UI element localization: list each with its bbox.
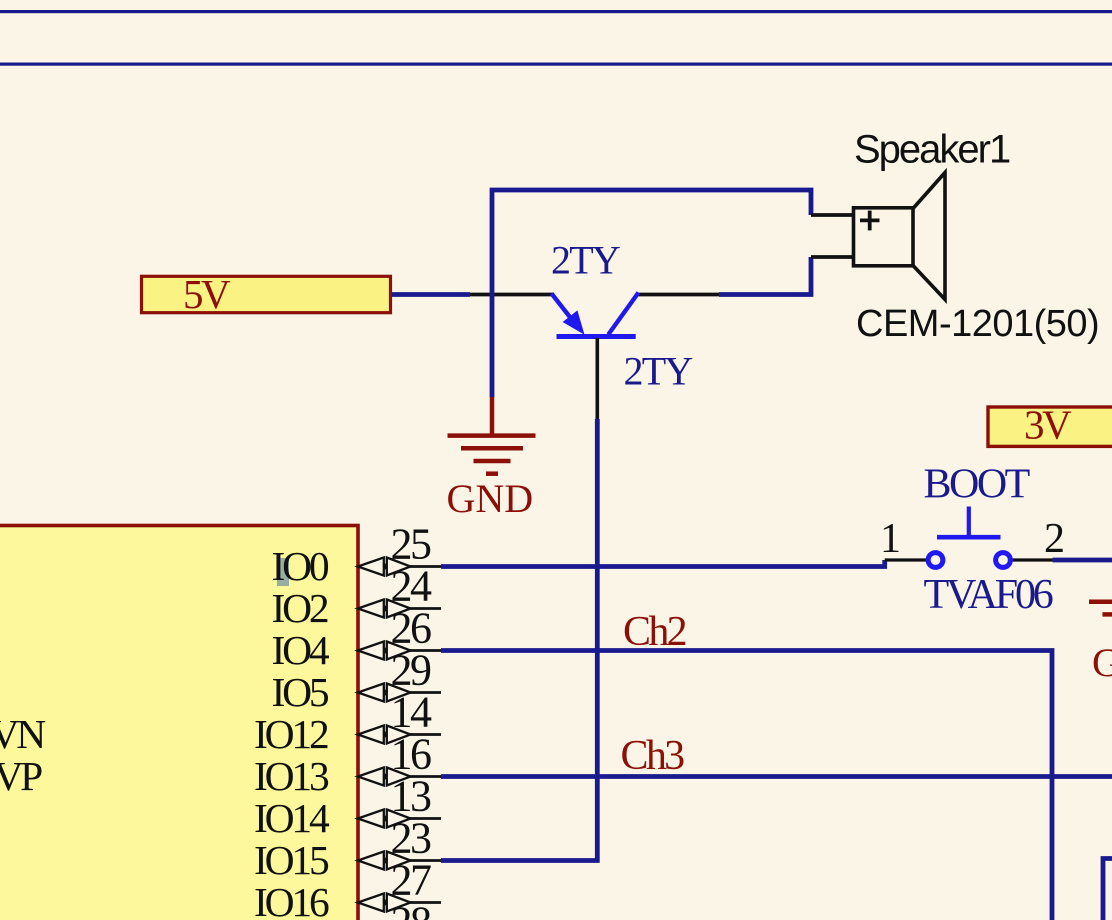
pin IO4 glyph (358, 642, 411, 660)
sheet border line top inner (0, 63, 1112, 66)
svg-text:IO0: IO0 (272, 543, 329, 589)
button S1 pin1 lead (black) (885, 558, 926, 561)
ground symbol GND (left) (448, 397, 536, 474)
wire base to IO15 (navy) (441, 419, 597, 861)
svg-text:BOOT: BOOT (924, 462, 1030, 508)
power flag 5V (142, 271, 391, 317)
pin IO16 lead (410, 901, 441, 904)
svg-text:IO13: IO13 (254, 753, 329, 799)
svg-text:IO14: IO14 (254, 795, 330, 841)
svg-text:Speaker1: Speaker1 (854, 128, 1010, 172)
svg-text:3V: 3V (1024, 402, 1072, 448)
pin IO0 glyph (358, 558, 411, 576)
pin IO15 glyph (358, 852, 411, 870)
wire IO0 to button (navy) (441, 560, 885, 567)
svg-text:IO15: IO15 (254, 837, 329, 883)
svg-text:IO4: IO4 (272, 627, 330, 673)
svg-text:VN: VN (0, 711, 46, 757)
svg-text:1: 1 (880, 516, 901, 562)
svg-text:IO2: IO2 (272, 585, 328, 631)
pin IO5 glyph (358, 684, 411, 702)
pin IO0 lead (410, 565, 441, 568)
svg-text:Ch3: Ch3 (621, 733, 685, 779)
wire collector to speaker (navy) (719, 257, 811, 295)
pin IO15 lead (410, 859, 441, 862)
sheet border line top outer (0, 10, 1112, 13)
button S1 actuator bar (937, 535, 1001, 540)
power flag 3V (clipped right) (988, 402, 1112, 448)
wire speaker top to GND vertical (navy) (492, 190, 811, 397)
svg-text:28: 28 (391, 898, 432, 920)
svg-text:IO12: IO12 (254, 711, 328, 757)
svg-text:2TY: 2TY (624, 349, 693, 394)
svg-text:2: 2 (1044, 516, 1065, 562)
speaker LS1 box (854, 208, 914, 266)
transistor base lead (black) (595, 338, 599, 419)
wire Ch3 from IO13 (navy) (441, 774, 1112, 779)
button S1 pin2 lead (black) (1012, 558, 1053, 561)
pin IO12 lead (410, 733, 441, 736)
svg-text:5V: 5V (183, 271, 231, 317)
pin IO2 glyph (358, 600, 411, 618)
transistor Q1 emitter lead (black) (470, 293, 554, 297)
svg-text:2TY: 2TY (551, 238, 620, 283)
module U1 (yellow body, partially off-canvas left/bottom) (0, 526, 358, 920)
selection artifact (teal) on IO0 label (277, 558, 289, 586)
ground symbol GND (right, clipped) (1089, 602, 1112, 615)
pin IO2 lead (410, 607, 441, 610)
svg-text:GND: GND (1092, 640, 1112, 685)
pin IO13 glyph (358, 768, 411, 786)
pin IO5 lead (410, 691, 441, 694)
pin IO16 glyph (358, 894, 411, 912)
speaker cone (913, 173, 945, 300)
speaker leads (black) (811, 213, 853, 217)
wire Ch2 from IO4 (navy) (441, 651, 1052, 920)
svg-text:GND: GND (447, 476, 534, 521)
svg-text:IO5: IO5 (272, 669, 329, 715)
svg-text:CEM-1201(50): CEM-1201(50) (856, 303, 1099, 345)
pin IO12 glyph (358, 726, 411, 744)
wire 5V to emitter (navy) (392, 292, 470, 297)
wire button pin2 to right edge (navy) (1053, 558, 1112, 563)
speaker plus sign (860, 211, 880, 231)
button S1 contacts (blue circles) (928, 553, 943, 568)
svg-text:TVAF06: TVAF06 (924, 572, 1053, 618)
transistor Q1 collector lead (black) (637, 293, 720, 297)
svg-text:IO16: IO16 (254, 879, 329, 920)
button S1 actuator stem (967, 507, 971, 540)
svg-text:Ch2: Ch2 (623, 609, 686, 655)
transistor Q1 body (blue) (552, 293, 639, 337)
pin IO14 lead (410, 817, 441, 820)
svg-text:VP: VP (0, 753, 42, 799)
pin IO4 lead (410, 649, 441, 652)
pin IO13 lead (410, 775, 441, 778)
pin IO14 glyph (358, 810, 411, 828)
wire bottom-right corner (navy) (1103, 859, 1112, 920)
